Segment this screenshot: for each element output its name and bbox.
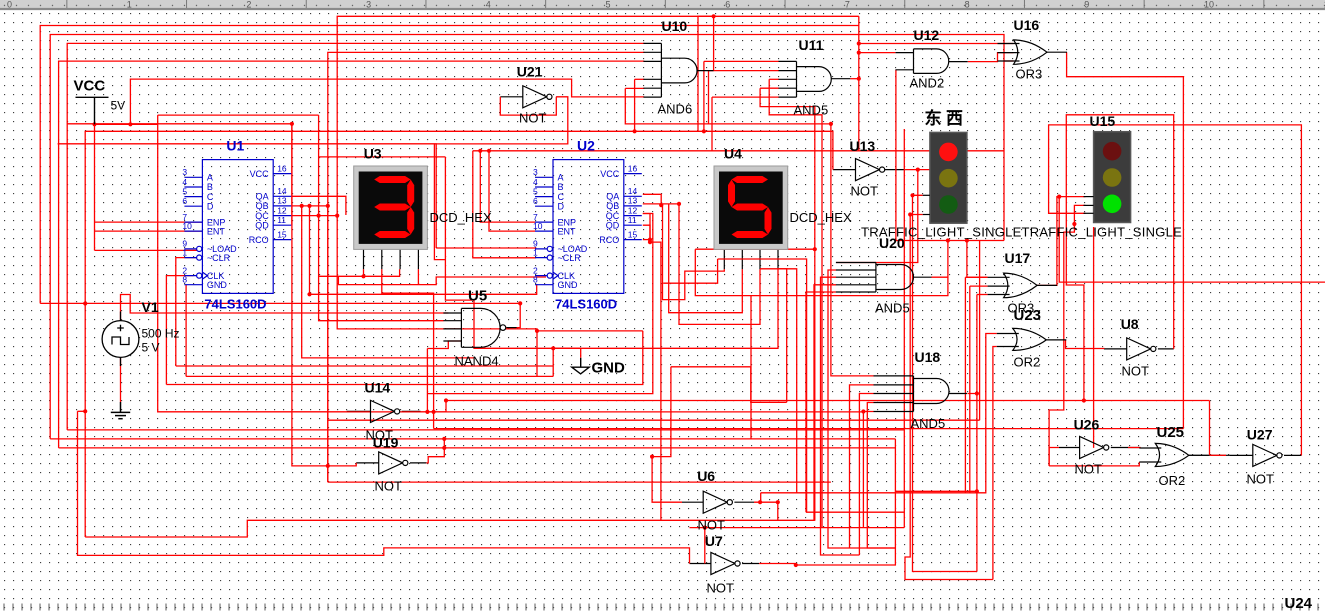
svg-text:ENT: ENT (207, 226, 226, 236)
svg-text:AND5: AND5 (911, 416, 946, 431)
wire U11.in4 wire (760, 87, 779, 89)
svg-text:DCD_HEX: DCD_HEX (430, 210, 492, 225)
wire U10 out loop (337, 16, 713, 215)
svg-text:U13: U13 (850, 138, 876, 154)
wire U18 in2 red (850, 385, 874, 548)
wire U23 in b col (993, 347, 997, 580)
svg-text:U24: U24 (1285, 595, 1313, 611)
junction 28 (758, 500, 762, 504)
wire ENT2 drop (489, 151, 535, 231)
svg-text:NOT: NOT (851, 184, 879, 199)
svg-text:4: 4 (533, 177, 538, 187)
wire x40 col (40, 26, 859, 304)
wire x904 col (903, 129, 905, 528)
wire VCC to U1.LOAD (95, 249, 197, 251)
svg-text:13: 13 (628, 196, 638, 206)
svg-text:U15: U15 (1090, 113, 1116, 129)
svg-text:QC: QC (606, 211, 620, 221)
ground GND (triangle) (572, 358, 589, 374)
junction 4 (290, 122, 294, 126)
wire U2.LOAD lead (436, 247, 535, 250)
svg-text:15: 15 (628, 229, 638, 239)
U27 input lead (1230, 454, 1253, 456)
junction 43 (857, 77, 861, 81)
U8 output lead (1158, 348, 1174, 350)
svg-text:RCO: RCO (249, 235, 269, 245)
wire U1.QB net (292, 205, 328, 207)
wire U3.p4 drop (417, 269, 419, 284)
junction 11 (361, 274, 365, 278)
svg-text:TRAFFIC_LIGHT_SINGLETRAFFIC_LI: TRAFFIC_LIGHT_SINGLETRAFFIC_LIGHT_SINGLE (861, 224, 1182, 239)
junction 1 (128, 122, 132, 126)
wire U21 out (58, 97, 568, 144)
wire U8 out snake (1066, 115, 1173, 401)
wire y268.8 line (760, 269, 797, 493)
svg-text:U16: U16 (1014, 17, 1040, 33)
wire U11.in2 col (708, 71, 710, 124)
svg-text:D: D (558, 201, 565, 211)
wire U6 out dot2 drop (777, 502, 779, 520)
wire y259 line (718, 259, 807, 512)
wire U20 in4 (814, 285, 836, 521)
U21 output lead (555, 96, 558, 98)
wire U17 in c (977, 294, 988, 296)
svg-text:NAND4: NAND4 (455, 354, 499, 369)
wire x301 col y357.9 line (302, 206, 474, 358)
wire x625 col (625, 88, 831, 124)
NOT gate U6 (703, 491, 732, 513)
wire U23 in a to U6 net (761, 334, 997, 493)
svg-text:QB: QB (606, 201, 619, 211)
wire y303.5 line (40, 302, 520, 304)
wire x337 col to U5.in3 (337, 216, 443, 329)
svg-text:U3: U3 (364, 146, 382, 162)
svg-text:8: 8 (533, 275, 538, 285)
junction 25 (677, 202, 681, 206)
wire x318 col to U5.in2 (319, 115, 444, 321)
wire under-U4 y249.2 (695, 248, 815, 250)
svg-text:6: 6 (533, 196, 538, 206)
wire U11.in2 wire (709, 70, 779, 72)
junction 2 (83, 301, 87, 305)
junction 45 (857, 41, 861, 45)
svg-text:U25: U25 (1157, 424, 1185, 441)
junction 40 (1057, 195, 1061, 199)
junction 47 (633, 129, 637, 133)
wire U12.in1 wire (859, 52, 896, 54)
junction 8 (335, 214, 339, 218)
svg-text:NOT: NOT (707, 581, 735, 596)
svg-text:U1: U1 (226, 138, 244, 154)
svg-text:U12: U12 (914, 27, 940, 43)
junction 34 (908, 212, 912, 216)
junction 6 (307, 204, 311, 208)
traffic light 东西 (TL1) (930, 132, 967, 223)
junction 36 (965, 238, 969, 242)
wire wire5 U10.in6 (130, 79, 644, 124)
U3 pin 1 (363, 249, 365, 269)
U7 input lead (690, 563, 711, 565)
svg-text:QA: QA (606, 192, 619, 202)
wire U18 in1 red (831, 124, 874, 376)
wire U19 in stub (327, 466, 329, 482)
junction 49 (702, 129, 706, 133)
wire x310 col (309, 206, 311, 294)
7-segment display U3 DCD_HEX (354, 166, 428, 249)
svg-text:U14: U14 (365, 380, 391, 396)
wire x1209 col (1209, 401, 1211, 456)
NOT gate U13 (856, 159, 885, 181)
svg-text:U10: U10 (662, 18, 688, 34)
svg-text:A: A (207, 173, 213, 183)
U8 input lead (1104, 348, 1127, 350)
svg-text:VCC: VCC (74, 78, 106, 95)
wire U1.CLK feeder (166, 276, 193, 385)
wire y438.9 line (50, 438, 895, 440)
wire U20 out (932, 276, 948, 278)
wire U20 in2 (828, 270, 895, 548)
svg-text:RCO: RCO (599, 235, 619, 245)
svg-text:U18: U18 (915, 349, 941, 365)
junction 33 (910, 193, 914, 197)
wire ENP2 drop (480, 151, 535, 222)
wire GND col (552, 348, 554, 376)
junction 30 (794, 563, 798, 567)
wire U18 in4 (867, 403, 895, 549)
junction 12 (425, 410, 429, 414)
junction 5 (300, 204, 304, 208)
svg-text:~CLR: ~CLR (558, 253, 582, 263)
ground under V1 (111, 402, 130, 419)
wire x1059 col (1059, 197, 1325, 283)
wire x786.7 col to U4.p4 (778, 269, 787, 403)
U6 input lead (682, 501, 703, 503)
wire U17 in b (970, 285, 988, 287)
wire y482.1 line (328, 481, 831, 483)
U26 input lead (1059, 447, 1080, 449)
wire VCC stem net (94, 124, 96, 250)
junction 7 (326, 204, 330, 208)
U14 input lead (347, 410, 371, 412)
svg-text:74LS160D: 74LS160D (204, 296, 266, 311)
svg-text:GND: GND (207, 280, 228, 290)
svg-text:D: D (207, 201, 214, 211)
svg-text:QC: QC (255, 211, 269, 221)
wire U20 in1 red (836, 262, 876, 264)
U27 output lead (1284, 454, 1301, 456)
TL2 pin stubs (1084, 197, 1094, 214)
svg-text:AND5: AND5 (875, 301, 910, 316)
svg-text:OR2: OR2 (1159, 473, 1186, 488)
junction 26 (648, 238, 652, 242)
wire U6 out right (754, 501, 778, 503)
AND5 gate U20 (836, 263, 932, 293)
svg-text:U11: U11 (799, 37, 824, 53)
svg-text:U19: U19 (373, 435, 399, 451)
wire U18 in5 (863, 412, 873, 528)
NOT gate U27 (1253, 444, 1282, 466)
svg-text:B: B (558, 182, 564, 192)
svg-text:U26: U26 (1074, 417, 1100, 433)
junction 13 (432, 410, 436, 414)
svg-text:13: 13 (277, 196, 287, 206)
svg-text:NOT: NOT (519, 111, 547, 126)
wire U11.in4 snake (760, 88, 815, 521)
svg-text:11: 11 (277, 215, 286, 225)
U5 output lead (507, 327, 517, 329)
wire U2.QB net (643, 203, 679, 205)
wire TL1 green col (905, 215, 993, 580)
svg-text:12: 12 (277, 205, 287, 215)
junction 10 (317, 214, 321, 218)
NOT gate U8 (1127, 338, 1156, 360)
wire TL2 light rail (1093, 227, 1095, 448)
junction 17 (442, 446, 446, 450)
VCC symbol (76, 97, 109, 124)
svg-text:4: 4 (182, 177, 187, 187)
wire x660.9 col (650, 242, 661, 520)
wire U17 in a (965, 276, 987, 278)
junction 32 (916, 168, 920, 172)
wire x328b col (327, 206, 329, 466)
wire U6 in (652, 457, 682, 503)
wire VCC right (95, 123, 158, 125)
svg-text:11: 11 (628, 215, 637, 225)
svg-text:74LS160D: 74LS160D (555, 296, 617, 311)
wire x750.8 drop (751, 367, 787, 403)
svg-text:QD: QD (255, 220, 269, 230)
wire y150.8 line (473, 150, 1004, 152)
svg-text:GND: GND (592, 360, 626, 377)
junction 19 (487, 149, 491, 153)
wire U26 in link (1049, 448, 1059, 466)
NOT gate U19 (379, 452, 408, 474)
svg-text:NOT: NOT (1247, 472, 1275, 487)
wire y393.6 U2.QC line (427, 214, 652, 394)
traffic light U15 (TL2) (1094, 132, 1131, 223)
bottom sheet boundary ticks (3, 604, 5, 611)
junction 37 (975, 489, 979, 493)
wire U11.in1 col (703, 61, 705, 131)
NAND4 gate U5 (443, 308, 505, 347)
junction 23 (650, 455, 654, 459)
wire y115 line (158, 114, 319, 116)
wire y376.4 line (186, 375, 553, 377)
wire U11.in5 wire (712, 96, 779, 98)
AND2 gate U12 (896, 49, 968, 74)
NOT gate U14 (371, 400, 400, 422)
junction 50 (829, 122, 833, 126)
wire x979 col (979, 241, 981, 421)
U4 pin 1 (723, 249, 725, 269)
U3 pin 3 (399, 249, 401, 269)
wire y156.9 dropR GND net (445, 157, 580, 348)
wire x158 col to U14.in (158, 115, 347, 412)
junction 18 (478, 149, 482, 153)
wire y366 line (176, 365, 553, 367)
svg-text:OR2: OR2 (1014, 355, 1041, 370)
wire x85 bottom run (85, 520, 815, 537)
U6 output lead (734, 501, 754, 503)
svg-text:AND2: AND2 (910, 76, 945, 91)
svg-text:U8: U8 (1121, 316, 1139, 332)
U21 input lead (500, 96, 523, 98)
svg-text:东西: 东西 (925, 108, 968, 128)
wire U1.QA net (292, 196, 346, 215)
wire U11.in3 wire (769, 78, 779, 80)
svg-text:OR3: OR3 (1016, 67, 1043, 82)
wire U2.QC net (643, 214, 650, 243)
wire U18 in3 (859, 394, 873, 556)
svg-text:VCC: VCC (600, 169, 620, 179)
wire y527.6 line (690, 527, 905, 529)
wire U2.RCO net (643, 239, 650, 241)
svg-text:QB: QB (256, 201, 269, 211)
wire U3 pin bus (319, 269, 400, 276)
U3 pin 4 (417, 249, 419, 269)
wire x917 col to U20.in1 (876, 170, 918, 263)
wire x292 col to U19.in (292, 124, 356, 466)
OR3 gate U16 (998, 40, 1068, 64)
U7 output lead (742, 563, 759, 565)
wire U10.in4 feeder (635, 78, 645, 80)
wire nest2 to U16.in3 (50, 35, 1004, 439)
svg-text:NOT: NOT (375, 479, 403, 494)
wire U11 out h (713, 16, 715, 70)
wire y366.8 seg (671, 366, 751, 368)
svg-text:14: 14 (277, 186, 287, 196)
wire y447.9 line (59, 447, 896, 449)
svg-text:1: 1 (182, 247, 187, 257)
wire U25 out red (1210, 454, 1226, 456)
wire x695.3 snake (695, 249, 751, 439)
counter U2 74LS160D (535, 160, 642, 294)
svg-text:5: 5 (533, 186, 538, 196)
wire y420.2 line (328, 419, 980, 421)
NOT gate U21 (523, 86, 552, 108)
wire x434 col (434, 144, 445, 260)
junction 0 (92, 122, 96, 126)
svg-text:U7: U7 (705, 533, 723, 549)
junction 39 (1072, 222, 1076, 226)
wire U21 in loop (500, 97, 556, 115)
wire U5.in3 line (444, 329, 643, 331)
U19 input lead (356, 462, 379, 464)
wire x446 link (445, 401, 447, 412)
junction 44 (857, 51, 861, 55)
counter U1 74LS160D (184, 160, 291, 294)
svg-text:5V: 5V (111, 99, 126, 113)
wire nest4 U10.in3 (59, 61, 645, 448)
U26 output lead (1111, 447, 1140, 449)
wire U2.QD net (643, 225, 650, 242)
wire x947 col (751, 241, 948, 296)
svg-text:GND: GND (558, 280, 579, 290)
junction 48 (813, 247, 817, 251)
wire U26 out red (1128, 447, 1140, 450)
junction 3 (83, 409, 87, 413)
junction 42 (861, 409, 865, 413)
NOT gate U7 (711, 552, 740, 574)
OR2 gate U25 (1139, 443, 1209, 466)
svg-text:VCC: VCC (250, 169, 270, 179)
svg-text:8: 8 (182, 275, 187, 285)
U13 output lead (885, 169, 906, 171)
wire x634 col (634, 79, 636, 131)
wire QB snake to U4.p2 (669, 204, 743, 313)
voltage source V1 (102, 312, 139, 367)
wire x85-x78 link (78, 410, 86, 412)
junction 16 (442, 437, 446, 441)
wire U26 under to U25.in2 (1049, 462, 1139, 466)
wire U7 out net (759, 564, 796, 566)
wire U16 out snake (1067, 52, 1184, 428)
svg-text:U17: U17 (1005, 250, 1031, 266)
wire U1.QD net (67, 124, 292, 225)
wire V1 top net to U5.in1 (121, 295, 449, 321)
wire x85 col to U13 (85, 131, 833, 537)
wire nest3 U10.in1 (67, 43, 644, 430)
junction 15 (326, 464, 330, 468)
AND5 gate U11 (779, 61, 851, 97)
svg-text:3: 3 (533, 167, 538, 177)
wire U3.p1 bus (363, 269, 365, 276)
svg-text:A: A (558, 173, 564, 183)
OR2 gate U23 (997, 328, 1067, 350)
wire U14 out net (421, 411, 447, 413)
wire dot433 down (433, 412, 435, 429)
wire x427 col U5.in4 (426, 349, 428, 412)
wire x537 col (536, 331, 538, 377)
junction 35 (946, 238, 950, 242)
junction 9 (307, 292, 311, 296)
svg-text:U5: U5 (468, 288, 487, 305)
U3 pin 2 (381, 249, 383, 269)
U4 pin 2 (741, 249, 743, 269)
wire y143.9 line (58, 144, 437, 248)
U25 output lead lead (1188, 454, 1230, 456)
svg-text:~CLR: ~CLR (207, 253, 231, 263)
U4 pin 4 (777, 249, 779, 269)
wire VCC to U1.ENP (95, 221, 203, 223)
wire x679 snake to U4.p3 (679, 204, 760, 325)
OR3 gate U17 (988, 273, 1058, 298)
svg-text:AND5: AND5 (794, 103, 829, 118)
svg-text:U27: U27 (1247, 427, 1273, 443)
wire TL1 bottom rail (895, 240, 1004, 242)
wire U1.GND drop (185, 285, 187, 377)
svg-text:U4: U4 (724, 146, 742, 162)
wire U5 out (506, 303, 520, 327)
svg-text:QA: QA (256, 192, 269, 202)
wire U16.in1 wire (859, 43, 1014, 45)
svg-text:10: 10 (533, 221, 543, 231)
TL1 pin stubs (923, 195, 930, 214)
wire U23 out to U8 (1066, 340, 1104, 349)
wire VCC to U1.ENT (95, 230, 203, 232)
wire y400.5 line (446, 400, 1210, 402)
wire y16.3 seg (698, 16, 859, 131)
AND5 gate U18 (874, 376, 968, 412)
wire x670.9 drop (652, 367, 671, 457)
wire U1.CLR feeder (176, 258, 199, 366)
svg-text:12: 12 (628, 205, 638, 215)
wire U27 out snake to TL2 green (1049, 125, 1302, 456)
wire U17 out to TL2 red (1037, 197, 1085, 286)
wire U16.in3 lead (1004, 60, 1014, 62)
wire TL1 yellow col (913, 195, 977, 571)
svg-text:1: 1 (533, 247, 538, 257)
